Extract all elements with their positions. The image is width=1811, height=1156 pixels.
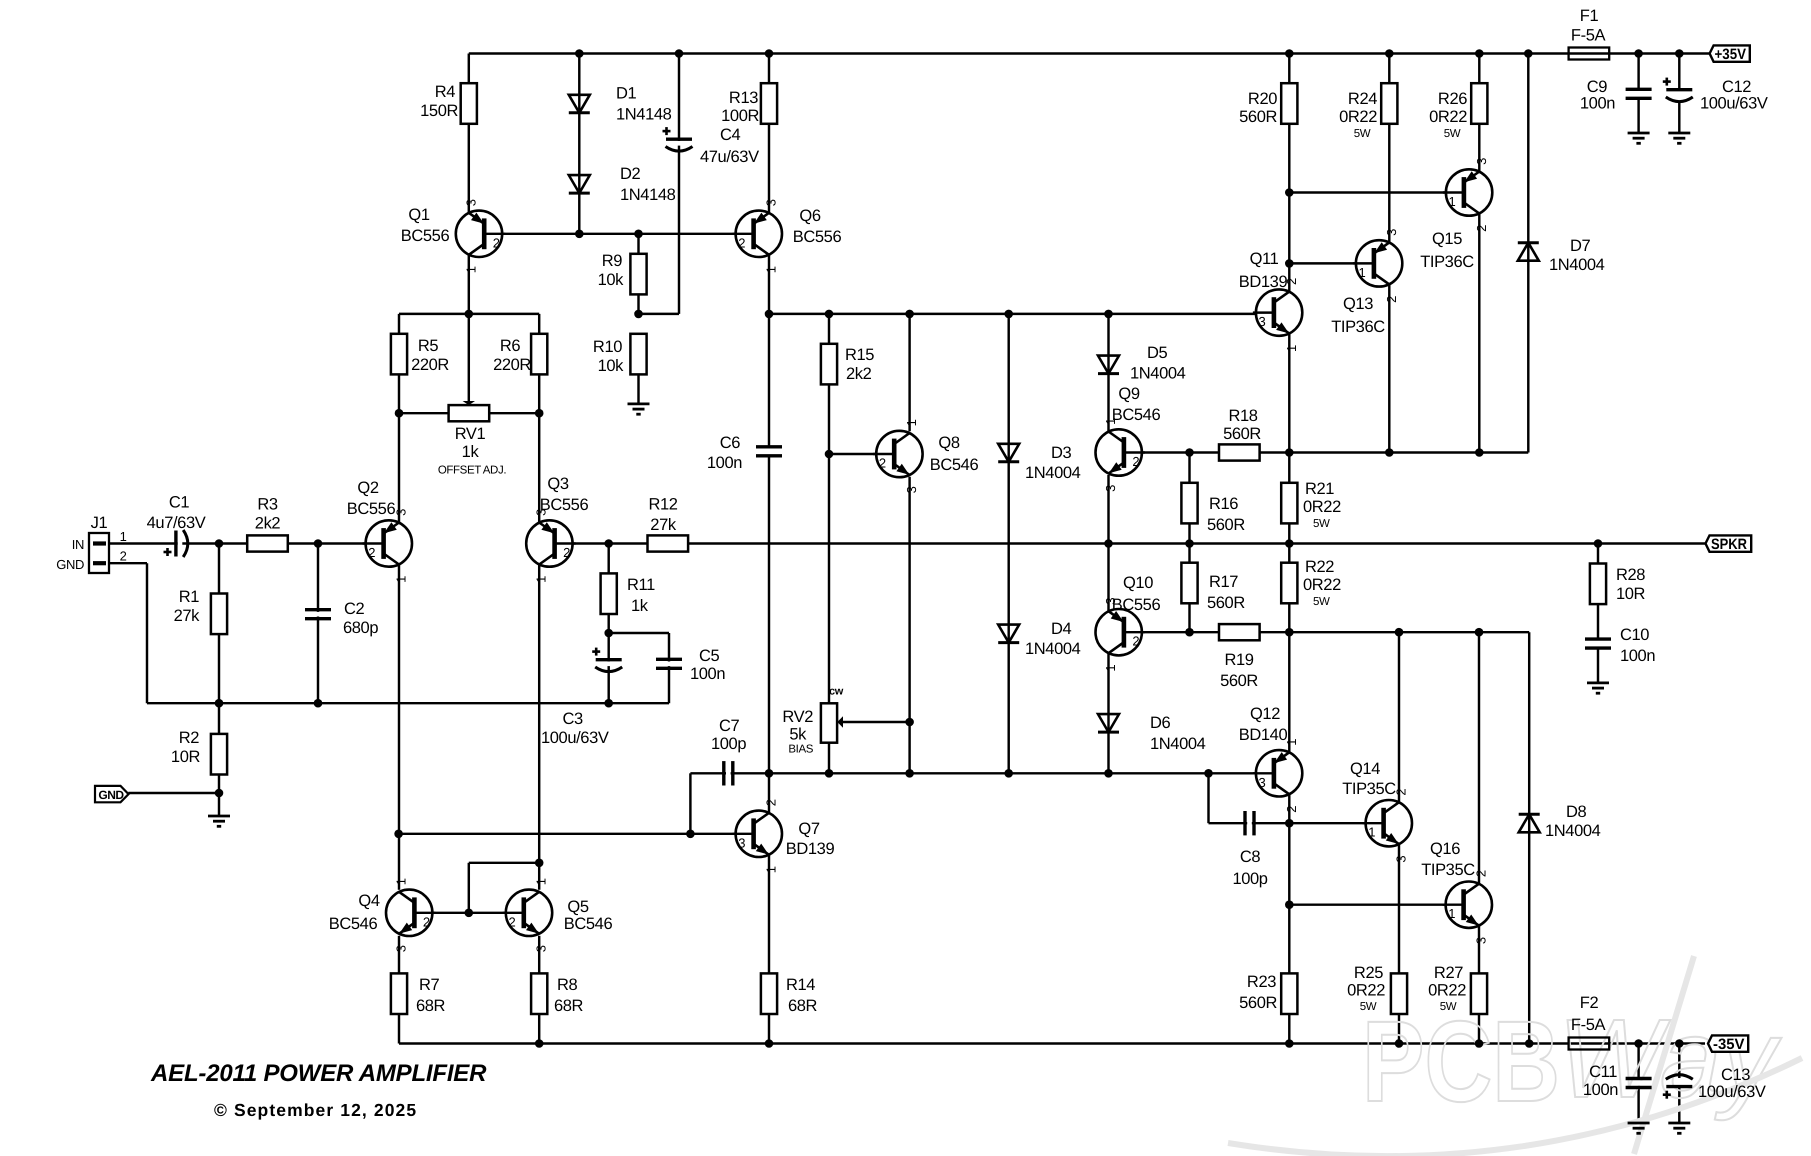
resistor R19 bbox=[1219, 624, 1260, 690]
wire Q15 base row bbox=[1289, 191, 1464, 193]
junction bbox=[535, 409, 544, 418]
svg-text:R3: R3 bbox=[257, 496, 278, 514]
date text bbox=[214, 1100, 417, 1120]
wire Q4 emitter bbox=[398, 936, 400, 974]
junction bbox=[394, 830, 403, 839]
svg-text:220R: 220R bbox=[411, 356, 449, 374]
svg-text:Q10: Q10 bbox=[1123, 574, 1153, 592]
junction bbox=[1395, 628, 1404, 637]
wire R13 / Q6 branch bbox=[768, 54, 770, 213]
svg-text:150R: 150R bbox=[420, 102, 458, 120]
svg-text:2: 2 bbox=[879, 456, 886, 471]
wire C12 ground leg bbox=[1678, 102, 1680, 133]
svg-text:C11: C11 bbox=[1589, 1063, 1617, 1081]
wire R11 column bbox=[607, 544, 609, 634]
diode D2 bbox=[569, 165, 676, 204]
transistor Q8 bbox=[873, 419, 978, 493]
svg-text:3: 3 bbox=[534, 945, 549, 952]
svg-text:C3: C3 bbox=[563, 710, 584, 728]
svg-text:100n: 100n bbox=[1620, 647, 1655, 665]
svg-text:OFFSET ADJ.: OFFSET ADJ. bbox=[438, 465, 506, 477]
net flag -35V bbox=[1708, 1035, 1748, 1053]
wire Q2 collector bbox=[398, 565, 400, 834]
svg-text:2: 2 bbox=[1132, 634, 1139, 649]
svg-text:© September 12, 2025: © September 12, 2025 bbox=[214, 1100, 417, 1120]
wire R23 tail bbox=[1288, 1014, 1290, 1044]
svg-text:D4: D4 bbox=[1051, 620, 1072, 638]
junction bbox=[905, 718, 914, 727]
svg-text:100u/63V: 100u/63V bbox=[1698, 1083, 1766, 1101]
svg-text:D3: D3 bbox=[1051, 444, 1072, 462]
resistor R14 bbox=[761, 973, 818, 1015]
svg-text:1: 1 bbox=[394, 878, 409, 885]
wire C4 branch bbox=[678, 54, 680, 314]
wire VAS node row bbox=[769, 313, 1274, 315]
wire R5-R6 top link bbox=[399, 313, 539, 315]
svg-text:Q12: Q12 bbox=[1250, 705, 1280, 723]
svg-text:R9: R9 bbox=[602, 252, 623, 270]
capacitor C5 bbox=[656, 647, 725, 683]
transistor Q11 bbox=[1239, 250, 1303, 352]
wire R9-C4 link bbox=[639, 313, 680, 315]
junction bbox=[765, 769, 774, 778]
resistor R18 bbox=[1219, 407, 1261, 461]
junction bbox=[1285, 628, 1294, 637]
svg-text:3: 3 bbox=[1474, 158, 1489, 165]
capacitor C13 bbox=[1663, 1066, 1766, 1101]
svg-text:1k: 1k bbox=[462, 443, 480, 461]
svg-text:1: 1 bbox=[463, 266, 478, 273]
ground R2 bbox=[208, 816, 230, 826]
transistor Q7 bbox=[733, 799, 835, 873]
wire C8 row bbox=[1209, 822, 1384, 824]
svg-text:GND: GND bbox=[98, 788, 124, 802]
capacitor C1 bbox=[147, 494, 206, 558]
resistor R27 bbox=[1428, 964, 1487, 1014]
svg-text:R8: R8 bbox=[557, 976, 578, 994]
wire R8 tail bbox=[538, 1014, 540, 1044]
svg-text:10R: 10R bbox=[1616, 585, 1646, 603]
potentiometer RV2 bbox=[782, 686, 843, 756]
transistor Q1 bbox=[401, 199, 505, 273]
svg-text:+35V: +35V bbox=[1715, 46, 1747, 63]
wire VAS bus bbox=[690, 772, 1274, 774]
svg-text:R26: R26 bbox=[1438, 90, 1467, 108]
wire C7 left leg bbox=[689, 773, 691, 834]
ground R10 bbox=[628, 404, 650, 414]
svg-text:4u7/63V: 4u7/63V bbox=[147, 514, 206, 532]
ground C10 bbox=[1587, 683, 1609, 693]
wire Q4-Q5 base link bbox=[414, 912, 523, 914]
junction bbox=[1475, 448, 1484, 457]
svg-text:BD140: BD140 bbox=[1239, 726, 1288, 744]
net flag +35V bbox=[1710, 45, 1750, 63]
svg-text:2: 2 bbox=[508, 914, 515, 929]
capacitor C4 bbox=[663, 126, 760, 166]
wire D3-D4 chain bbox=[1007, 314, 1009, 773]
wire R22 column bbox=[1288, 544, 1290, 633]
junction bbox=[1594, 539, 1603, 548]
wire R26 to Q15 bbox=[1478, 124, 1480, 172]
wire Q5 emitter bbox=[538, 936, 540, 974]
svg-text:1: 1 bbox=[764, 866, 779, 873]
svg-text:100n: 100n bbox=[1580, 95, 1615, 113]
svg-text:Q14: Q14 bbox=[1350, 760, 1380, 778]
resistor R20 bbox=[1239, 83, 1297, 126]
wire C10 ground leg bbox=[1597, 648, 1599, 683]
svg-text:C4: C4 bbox=[720, 126, 741, 144]
svg-text:AEL-2011 POWER AMPLIFIER: AEL-2011 POWER AMPLIFIER bbox=[150, 1060, 487, 1087]
wire R1 column bbox=[218, 544, 220, 704]
svg-text:C8: C8 bbox=[1240, 848, 1261, 866]
svg-text:C9: C9 bbox=[1587, 78, 1608, 96]
svg-text:R11: R11 bbox=[627, 576, 655, 594]
svg-text:1: 1 bbox=[394, 576, 409, 583]
svg-text:SPKR: SPKR bbox=[1711, 536, 1747, 553]
wire C11 ground leg bbox=[1637, 1087, 1639, 1123]
svg-text:560R: 560R bbox=[1223, 425, 1261, 443]
junction bbox=[634, 310, 643, 319]
junction bbox=[675, 49, 684, 58]
svg-text:R4: R4 bbox=[435, 83, 456, 101]
diode D4 bbox=[998, 620, 1080, 658]
resistor R10 bbox=[593, 334, 647, 375]
resistor R23 bbox=[1239, 973, 1297, 1014]
resistor R17 bbox=[1181, 563, 1245, 612]
wire Q1-Q6 base link bbox=[484, 233, 753, 235]
junction bbox=[1525, 1039, 1534, 1048]
svg-text:R2: R2 bbox=[179, 729, 200, 747]
svg-text:1N4004: 1N4004 bbox=[1130, 365, 1186, 383]
svg-text:2k2: 2k2 bbox=[255, 515, 281, 533]
svg-text:2: 2 bbox=[423, 914, 430, 929]
transistor Q4 bbox=[329, 878, 436, 952]
junction bbox=[1675, 1039, 1684, 1048]
wire RV1 wiper stem bbox=[468, 314, 470, 401]
resistor R3 bbox=[247, 496, 288, 552]
wire R16 column bbox=[1188, 453, 1190, 544]
svg-text:RV1: RV1 bbox=[455, 425, 486, 443]
wire RV1 left link bbox=[399, 412, 449, 414]
wire R6 column bbox=[538, 314, 540, 413]
wire R21 column bbox=[1288, 453, 1290, 544]
wire R5 column bbox=[398, 314, 400, 413]
junction bbox=[1004, 769, 1013, 778]
svg-text:3: 3 bbox=[463, 199, 478, 206]
wire J1 gnd drop bbox=[146, 563, 148, 703]
svg-text:1: 1 bbox=[764, 266, 779, 273]
svg-text:C6: C6 bbox=[720, 434, 741, 452]
wire Q10 base link bbox=[1124, 631, 1190, 633]
svg-text:1N4004: 1N4004 bbox=[1025, 464, 1081, 482]
svg-text:1k: 1k bbox=[631, 597, 649, 615]
wire R7 tail bbox=[398, 1014, 400, 1044]
svg-text:C2: C2 bbox=[344, 600, 365, 618]
wire Q3 base link bbox=[555, 542, 609, 544]
svg-text:Q1: Q1 bbox=[408, 206, 429, 224]
svg-text:100R: 100R bbox=[721, 107, 759, 125]
wire R19 row bbox=[1190, 631, 1530, 633]
svg-text:47u/63V: 47u/63V bbox=[700, 148, 759, 166]
junction bbox=[765, 1039, 774, 1048]
connector J1 bbox=[56, 514, 126, 573]
resistor R13 bbox=[721, 83, 777, 125]
svg-text:BC546: BC546 bbox=[329, 915, 378, 933]
junction bbox=[1104, 769, 1113, 778]
wire J1 pin2 stub bbox=[109, 562, 147, 564]
junction bbox=[1475, 49, 1484, 58]
junction bbox=[314, 699, 323, 708]
wire C3-C5 link bbox=[609, 632, 669, 634]
svg-text:R7: R7 bbox=[419, 976, 440, 994]
junction bbox=[604, 699, 613, 708]
svg-text:D8: D8 bbox=[1566, 803, 1587, 821]
wire R27 tail bbox=[1478, 1014, 1480, 1044]
junction bbox=[765, 310, 774, 319]
svg-text:R18: R18 bbox=[1228, 407, 1257, 425]
wire Q3 collector bbox=[538, 565, 540, 890]
wire Q4 collector bbox=[398, 834, 400, 890]
wire C9 branch bbox=[1637, 54, 1639, 91]
junction bbox=[1634, 49, 1643, 58]
junction bbox=[1285, 448, 1294, 457]
svg-text:F-5A: F-5A bbox=[1571, 1016, 1606, 1034]
wire Q8 emitter bbox=[908, 477, 910, 774]
wire Q15 collector bbox=[1478, 214, 1480, 453]
wire RV1 right link bbox=[489, 412, 539, 414]
svg-text:R28: R28 bbox=[1616, 566, 1645, 584]
svg-text:R17: R17 bbox=[1209, 573, 1238, 591]
svg-text:5W: 5W bbox=[1440, 1001, 1457, 1013]
wire R2 column bbox=[218, 703, 220, 793]
wire R24 column bbox=[1388, 54, 1390, 84]
wire Q16 collector bbox=[1478, 632, 1480, 884]
resistor R16 bbox=[1181, 483, 1245, 534]
wire Q11 column upper bbox=[1288, 54, 1290, 84]
wire Q16 emitter bbox=[1478, 926, 1480, 974]
wire GND flag link bbox=[128, 792, 219, 794]
svg-text:3: 3 bbox=[1259, 775, 1266, 790]
junction bbox=[825, 769, 834, 778]
wire C8 left leg bbox=[1207, 773, 1209, 823]
svg-text:BIAS: BIAS bbox=[788, 744, 813, 756]
svg-text:Q11: Q11 bbox=[1250, 250, 1279, 268]
svg-text:0R22: 0R22 bbox=[1428, 982, 1466, 1000]
resistor R15 bbox=[821, 344, 874, 385]
junction bbox=[1004, 310, 1013, 319]
wire C11 branch bbox=[1637, 1044, 1639, 1080]
junction bbox=[634, 230, 643, 239]
svg-text:5W: 5W bbox=[1313, 518, 1330, 530]
capacitor C9 bbox=[1580, 78, 1652, 113]
wire D1-D2 chain bbox=[578, 54, 580, 234]
junction bbox=[905, 310, 914, 319]
svg-text:TIP36C: TIP36C bbox=[1331, 318, 1385, 336]
svg-text:1: 1 bbox=[1103, 665, 1118, 672]
junction bbox=[535, 1039, 544, 1048]
svg-text:220R: 220R bbox=[493, 356, 531, 374]
svg-text:Q13: Q13 bbox=[1343, 295, 1373, 313]
capacitor C7 bbox=[711, 717, 746, 786]
svg-text:BC546: BC546 bbox=[564, 915, 613, 933]
junction bbox=[1104, 539, 1113, 548]
svg-text:Q3: Q3 bbox=[547, 475, 568, 493]
svg-text:1: 1 bbox=[1284, 345, 1299, 352]
title text bbox=[150, 1060, 487, 1087]
junction bbox=[1185, 448, 1194, 457]
junction bbox=[1204, 769, 1213, 778]
wire Q10 emitter from rail bbox=[1107, 544, 1109, 611]
resistor R4 bbox=[420, 83, 477, 124]
svg-text:5W: 5W bbox=[1360, 1001, 1377, 1013]
svg-text:RV2: RV2 bbox=[782, 708, 813, 726]
wire mirror loop horiz bbox=[469, 862, 539, 864]
resistor R1 bbox=[174, 588, 228, 634]
wire Q7 base row bbox=[399, 833, 754, 835]
wire C5 branch bbox=[668, 633, 670, 703]
wire R26 column bbox=[1478, 54, 1480, 84]
svg-text:0R22: 0R22 bbox=[1429, 108, 1467, 126]
svg-text:R25: R25 bbox=[1354, 964, 1383, 982]
wire mirror loop vert bbox=[468, 863, 470, 913]
svg-text:BC546: BC546 bbox=[930, 456, 979, 474]
svg-text:3: 3 bbox=[1384, 229, 1399, 236]
svg-text:68R: 68R bbox=[416, 997, 446, 1015]
svg-text:R23: R23 bbox=[1247, 973, 1276, 991]
net flag SPKR bbox=[1706, 535, 1752, 553]
svg-text:BC556: BC556 bbox=[793, 228, 842, 246]
svg-text:2: 2 bbox=[1384, 296, 1399, 303]
svg-text:68R: 68R bbox=[554, 997, 584, 1015]
svg-text:BC556: BC556 bbox=[347, 500, 396, 518]
diode D5 bbox=[1098, 344, 1186, 383]
wire R25 tail bbox=[1398, 1014, 1400, 1044]
svg-text:TIP36C: TIP36C bbox=[1420, 253, 1474, 271]
capacitor C2 bbox=[305, 600, 378, 637]
wire R20 to Q11 bbox=[1288, 124, 1290, 292]
svg-text:680p: 680p bbox=[343, 619, 378, 637]
junction bbox=[1285, 259, 1294, 268]
svg-text:1: 1 bbox=[120, 529, 127, 544]
wire R28 branch bbox=[1597, 544, 1599, 564]
diode D1 bbox=[569, 85, 672, 124]
svg-text:1N4004: 1N4004 bbox=[1549, 256, 1605, 274]
svg-text:TIP35C: TIP35C bbox=[1342, 780, 1396, 798]
wire Q12 column bbox=[1288, 632, 1290, 752]
svg-text:100p: 100p bbox=[1232, 870, 1267, 888]
wire Q8 base link bbox=[829, 453, 894, 455]
svg-text:560R: 560R bbox=[1207, 594, 1245, 612]
svg-text:2: 2 bbox=[1474, 870, 1489, 877]
svg-text:Way: Way bbox=[1558, 996, 1782, 1121]
wire R28-C10 link bbox=[1597, 604, 1599, 640]
svg-text:2: 2 bbox=[368, 545, 375, 560]
wire D7 column bbox=[1527, 54, 1529, 453]
junction bbox=[1475, 1039, 1484, 1048]
svg-text:68R: 68R bbox=[788, 997, 818, 1015]
svg-text:D7: D7 bbox=[1570, 237, 1591, 255]
junction bbox=[905, 769, 914, 778]
wire C2 column bbox=[317, 544, 319, 704]
wire Q13 collector bbox=[1388, 285, 1390, 453]
transistor Q13 bbox=[1331, 229, 1402, 336]
resistor R12 bbox=[648, 496, 689, 552]
wire Q1 collector to R5R6 node bbox=[468, 255, 470, 314]
resistor R7 bbox=[391, 973, 446, 1015]
svg-text:1: 1 bbox=[1359, 265, 1366, 280]
svg-text:C13: C13 bbox=[1721, 1066, 1750, 1084]
svg-text:100u/63V: 100u/63V bbox=[541, 729, 609, 747]
junction bbox=[535, 859, 544, 868]
svg-text:C1: C1 bbox=[169, 494, 190, 512]
transistor Q12 bbox=[1239, 705, 1303, 813]
svg-text:0R22: 0R22 bbox=[1303, 576, 1341, 594]
PCBWay watermark bbox=[1228, 956, 1802, 1156]
svg-text:1: 1 bbox=[1448, 906, 1455, 921]
wire Q2 emitter bbox=[398, 413, 400, 522]
resistor R28 bbox=[1590, 564, 1646, 605]
svg-text:J1: J1 bbox=[91, 514, 108, 532]
svg-text:R19: R19 bbox=[1224, 651, 1253, 669]
svg-text:R16: R16 bbox=[1209, 495, 1238, 513]
svg-text:1: 1 bbox=[904, 419, 919, 426]
wire Q9 emitter to rail bbox=[1107, 475, 1109, 544]
wire Q12-R23 link bbox=[1288, 823, 1290, 973]
svg-text:10k: 10k bbox=[598, 271, 625, 289]
junction bbox=[1385, 448, 1394, 457]
svg-text:C12: C12 bbox=[1722, 78, 1751, 96]
junction bbox=[1285, 539, 1294, 548]
wire Q14 emitter bbox=[1398, 844, 1400, 973]
svg-text:F-5A: F-5A bbox=[1571, 27, 1606, 45]
svg-text:2: 2 bbox=[120, 549, 127, 564]
svg-text:1: 1 bbox=[534, 576, 549, 583]
svg-text:Q2: Q2 bbox=[357, 479, 378, 497]
svg-text:560R: 560R bbox=[1239, 994, 1277, 1012]
svg-text:2: 2 bbox=[1474, 225, 1489, 232]
svg-text:C5: C5 bbox=[699, 647, 720, 665]
wire input gnd bus bbox=[147, 702, 669, 704]
junction bbox=[1524, 49, 1533, 58]
transistor Q14 bbox=[1342, 760, 1412, 863]
svg-text:-35V: -35V bbox=[1713, 1036, 1745, 1053]
svg-text:BC546: BC546 bbox=[1112, 406, 1161, 424]
diode D7 bbox=[1518, 237, 1605, 274]
svg-text:100n: 100n bbox=[707, 454, 742, 472]
svg-text:2: 2 bbox=[563, 545, 570, 560]
transistor Q3 bbox=[526, 475, 588, 583]
transistor Q10 bbox=[1096, 574, 1161, 672]
junction bbox=[575, 49, 584, 58]
resistor R24 bbox=[1339, 83, 1397, 140]
junction bbox=[1385, 49, 1394, 58]
svg-text:Q6: Q6 bbox=[799, 207, 820, 225]
svg-text:560R: 560R bbox=[1239, 108, 1277, 126]
svg-text:BD139: BD139 bbox=[786, 840, 835, 858]
svg-text:F1: F1 bbox=[1580, 7, 1599, 25]
junction bbox=[1185, 628, 1194, 637]
diode D3 bbox=[998, 444, 1080, 482]
svg-text:Q4: Q4 bbox=[358, 892, 379, 910]
junction bbox=[1475, 628, 1484, 637]
wire R14 tail bbox=[768, 1014, 770, 1044]
wire R24 to Q13 bbox=[1388, 124, 1390, 243]
svg-text:D5: D5 bbox=[1147, 344, 1168, 362]
wire Q13 base row bbox=[1289, 262, 1374, 264]
svg-text:3: 3 bbox=[394, 945, 409, 952]
svg-text:Q15: Q15 bbox=[1432, 230, 1462, 248]
svg-text:cw: cw bbox=[829, 686, 844, 698]
